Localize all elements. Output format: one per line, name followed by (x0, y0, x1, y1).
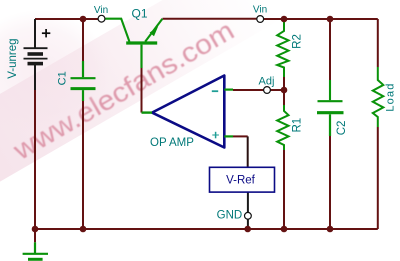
wire battery bottom lead lower (34, 90, 36, 229)
svg-text:V-unreg: V-unreg (7, 38, 19, 78)
junction bottom C1 (80, 226, 87, 233)
watermark band (0, 0, 281, 184)
wire V-Ref to GND node (247, 192, 249, 212)
op-amp plus input stub (224, 135, 233, 137)
svg-text:GND: GND (217, 209, 243, 221)
resistor R1 (283, 90, 285, 105)
resistor Load (373, 67, 384, 127)
wire top rail right (264, 18, 378, 20)
svg-text:Q1: Q1 (131, 7, 147, 21)
wire op-amp plus to V-Ref (233, 135, 248, 137)
wire battery top lead (34, 19, 36, 48)
wire C1 top (82, 19, 84, 61)
Q1 emitter arrow (150, 26, 159, 36)
wire Adj to R divider (270, 89, 284, 91)
svg-text:Vin: Vin (94, 5, 108, 16)
junction top R2 (281, 16, 288, 23)
junction top C2 (327, 16, 334, 23)
wire top rail left (35, 18, 98, 20)
resistor R2 (277, 19, 288, 77)
battery plus sign (42, 29, 50, 37)
wire GND node to rail (247, 219, 249, 229)
op-amp minus input stub (224, 88, 233, 90)
wire battery bottom lead (34, 64, 36, 90)
wire Q1 base to op-amp (141, 68, 143, 113)
svg-text:C1: C1 (56, 71, 68, 85)
battery V-Unreg (24, 48, 48, 63)
junction Adj (281, 87, 288, 94)
svg-text:C2: C2 (336, 121, 348, 136)
wire C2 bottom (329, 136, 331, 229)
wire C1 bottom (82, 101, 84, 229)
V-Ref box (210, 167, 275, 192)
wire right edge (377, 19, 379, 67)
capacitor C1 (71, 61, 96, 101)
svg-text:R1: R1 (292, 118, 304, 133)
ground (23, 229, 48, 259)
junction top C1 (80, 16, 87, 23)
op-amp output stub (142, 111, 153, 113)
capacitor C2 (317, 80, 344, 136)
node Vin left (98, 15, 105, 22)
op-amp plus symbol (212, 132, 219, 139)
node Adj (264, 87, 271, 94)
resistor R1 body (277, 105, 288, 150)
wire top rail mid (163, 18, 257, 20)
wire C2 top (329, 19, 331, 80)
junction bottom ground (32, 226, 39, 233)
node Vin right (257, 16, 264, 23)
svg-text:Vin: Vin (253, 5, 267, 16)
wire right edge lower (377, 127, 379, 229)
op-amp minus symbol (212, 90, 218, 92)
svg-text:R2: R2 (291, 34, 303, 49)
svg-text:OP AMP: OP AMP (150, 137, 194, 149)
node GND (245, 212, 252, 219)
wire R1 bottom (283, 150, 285, 229)
wire R2 to Adj node (283, 77, 285, 90)
svg-text:Load: Load (384, 82, 396, 111)
op-amp U1 (152, 76, 224, 148)
watermark tint blob upper-left (0, 10, 110, 134)
wire op-amp minus to Adj (233, 89, 264, 91)
svg-text:Adj: Adj (259, 76, 275, 88)
junction bottom C2 (327, 226, 334, 233)
wire V-Ref top vertical (247, 136, 249, 167)
svg-text:V-Ref: V-Ref (226, 175, 256, 187)
junction bottom R1 (281, 226, 288, 233)
wire bottom rail (35, 228, 378, 230)
junction bottom Vref (244, 226, 251, 233)
transistor Q1 (105, 19, 163, 68)
